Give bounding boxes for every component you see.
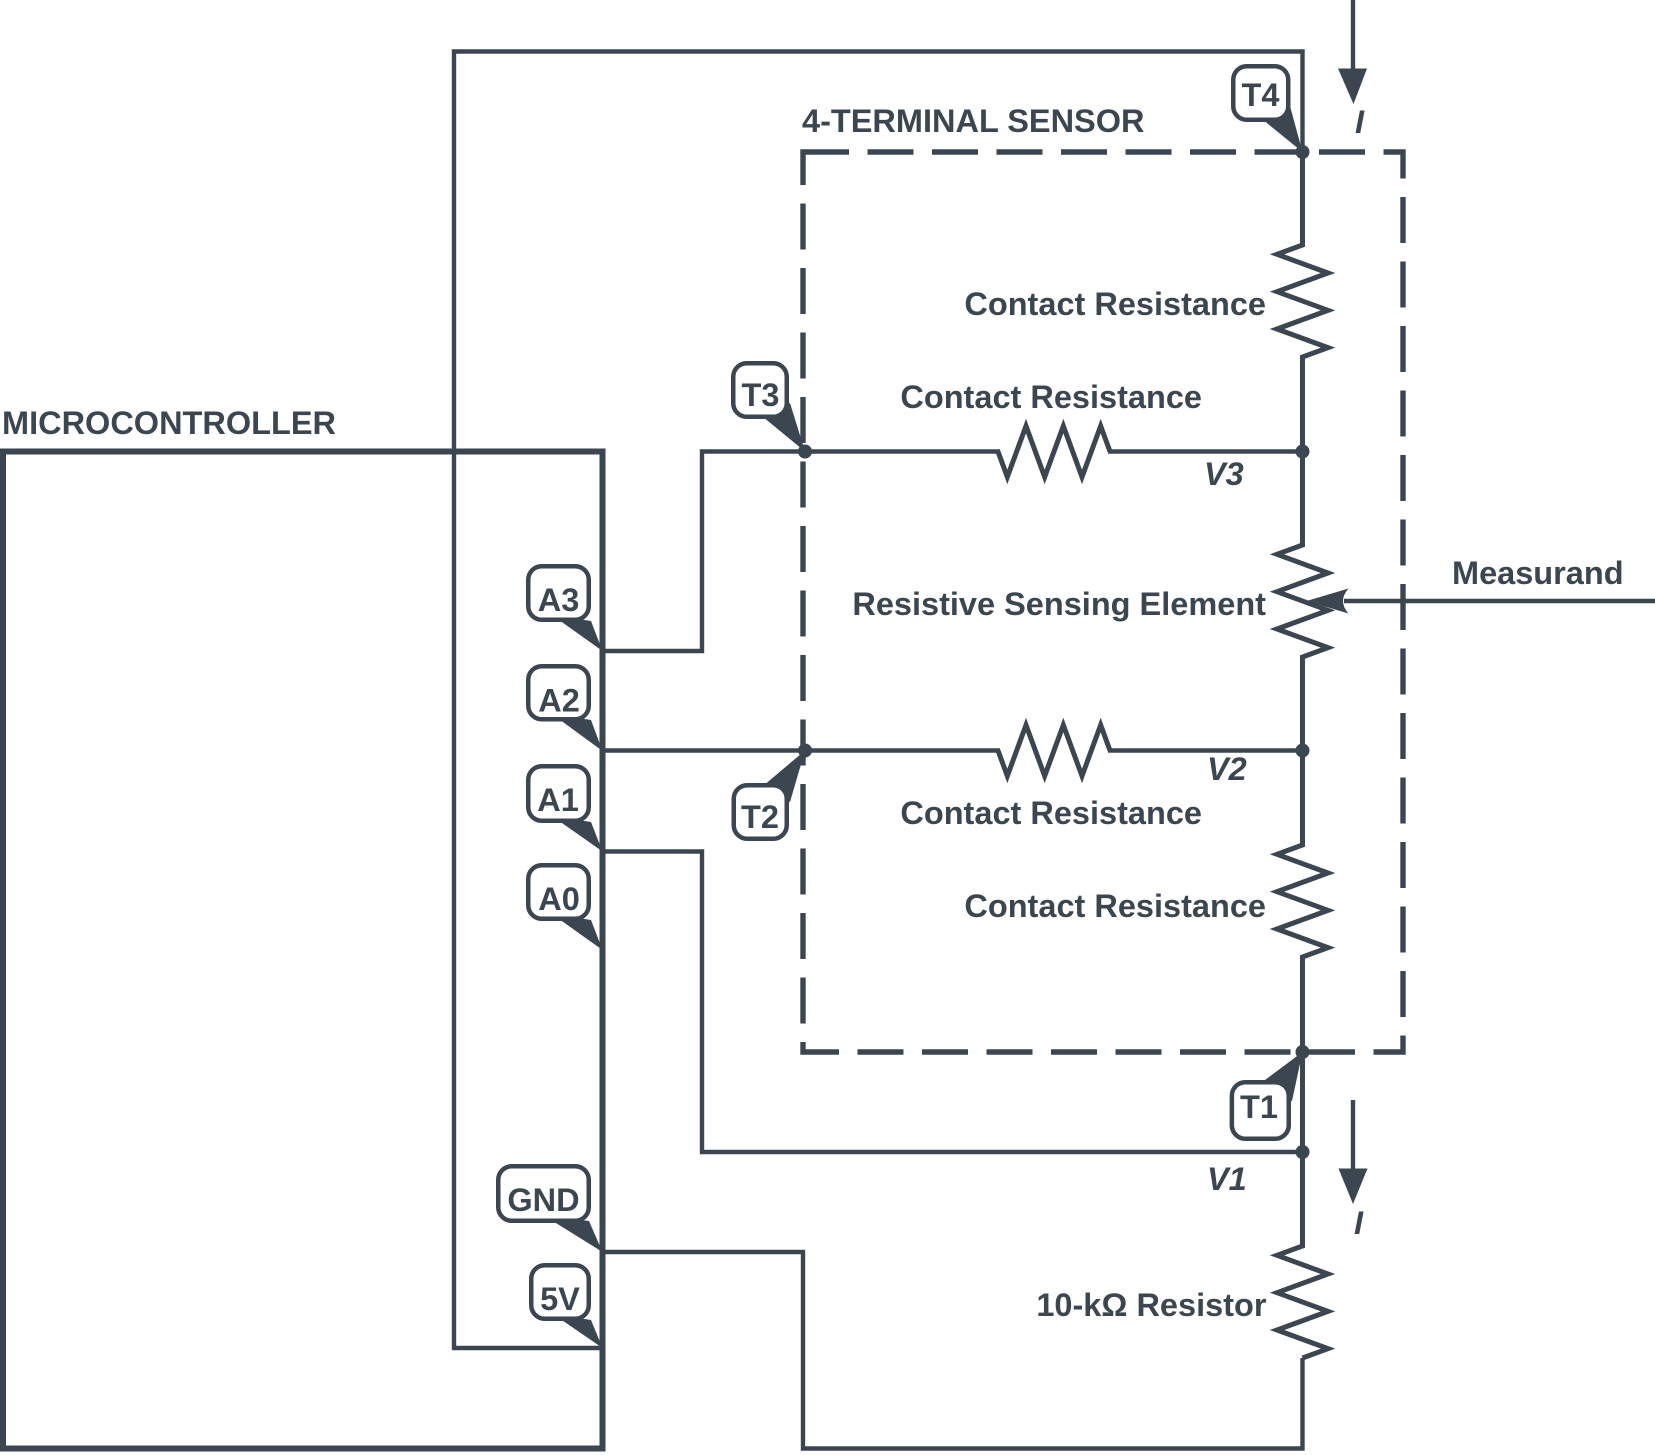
resistor 10-kOhm xyxy=(1277,1152,1328,1358)
svg-text:T3: T3 xyxy=(742,377,780,413)
junction dot V2 xyxy=(1296,744,1310,758)
wire R3 to node V2 xyxy=(1108,748,1303,752)
svg-text:A3: A3 xyxy=(538,582,580,618)
svg-text:A1: A1 xyxy=(537,782,579,818)
svg-text:V3: V3 xyxy=(1204,456,1244,492)
wire A3 to T3 xyxy=(603,452,1001,652)
callout box GND xyxy=(498,1166,589,1221)
current arrow bottom (wire) xyxy=(1351,1100,1355,1169)
svg-text:T1: T1 xyxy=(1240,1089,1278,1125)
svg-text:10-kΩ Resistor: 10-kΩ Resistor xyxy=(1036,1287,1267,1323)
dashed 4-terminal sensor box xyxy=(803,152,1403,1052)
measurand arrow line xyxy=(1344,599,1655,603)
svg-text:Resistive Sensing Element: Resistive Sensing Element xyxy=(852,586,1266,622)
wire 5V to T4 top loop xyxy=(454,52,1303,1349)
arrowhead bottom current xyxy=(1339,1169,1368,1205)
svg-text:I: I xyxy=(1354,1205,1364,1241)
svg-text:T2: T2 xyxy=(741,799,779,835)
callout tail A0 xyxy=(552,914,603,950)
callout box T2 xyxy=(734,785,787,839)
svg-text:T4: T4 xyxy=(1242,77,1280,113)
junction dot T3 xyxy=(798,445,812,459)
wire T1 to V1 xyxy=(1300,1052,1305,1152)
svg-text:4-TERMINAL SENSOR: 4-TERMINAL SENSOR xyxy=(802,103,1145,139)
callout tail T2 xyxy=(756,751,805,803)
callout box A0 xyxy=(528,865,589,919)
callout tail A2 xyxy=(552,714,603,751)
svg-text:A0: A0 xyxy=(538,881,580,917)
svg-text:Contact Resistance: Contact Resistance xyxy=(900,795,1202,831)
resistor contact resistance R1 (T4 branch, vertical) xyxy=(1277,152,1328,452)
callout box A1 xyxy=(528,766,589,821)
callout tail T1 xyxy=(1253,1052,1303,1101)
resistor resistive sensing element xyxy=(1277,452,1328,751)
callout box A2 xyxy=(528,666,589,719)
svg-text:V2: V2 xyxy=(1207,751,1247,787)
arrowhead top current xyxy=(1338,69,1367,105)
wire GND to resistor bottom xyxy=(603,1252,1303,1449)
microcontroller box xyxy=(3,452,603,1449)
junction dot V1 xyxy=(1296,1145,1310,1159)
svg-text:Contact Resistance: Contact Resistance xyxy=(900,379,1202,415)
svg-text:Contact Resistance: Contact Resistance xyxy=(964,286,1266,322)
current arrow top (wire) xyxy=(1351,0,1355,70)
svg-text:Measurand: Measurand xyxy=(1452,555,1624,591)
arrowhead measurand xyxy=(1307,589,1349,614)
wire A2 to T2 xyxy=(603,748,1001,752)
wire R2 to node V3 xyxy=(1108,449,1303,453)
callout tail A3 xyxy=(552,615,603,651)
callout tail 5V xyxy=(553,1314,603,1348)
callout box T3 xyxy=(733,363,787,417)
callout tail T4 xyxy=(1257,106,1303,152)
wire A1 to node V1 xyxy=(603,852,1303,1153)
junction dot V3 xyxy=(1296,445,1310,459)
junction dot T2 xyxy=(798,744,812,758)
contact resistance R3 (horizontal T2 branch) xyxy=(998,725,1110,776)
svg-text:I: I xyxy=(1355,104,1365,140)
callout tail A1 xyxy=(552,816,603,852)
junction dot T4 xyxy=(1296,145,1310,159)
svg-text:Contact Resistance: Contact Resistance xyxy=(964,888,1266,924)
callout box A3 xyxy=(528,566,589,620)
callout tail GND xyxy=(543,1215,603,1252)
callout box T4 xyxy=(1233,66,1288,120)
svg-text:MICROCONTROLLER: MICROCONTROLLER xyxy=(2,405,336,441)
svg-text:GND: GND xyxy=(507,1182,579,1218)
callout box 5V xyxy=(531,1265,589,1319)
callout box T1 xyxy=(1232,1082,1289,1139)
junction dot T1 xyxy=(1296,1045,1310,1059)
svg-text:A2: A2 xyxy=(538,683,580,719)
contact resistance R2 (horizontal T3 branch) xyxy=(998,426,1110,477)
callout tail T3 xyxy=(757,403,805,452)
svg-text:V1: V1 xyxy=(1207,1161,1247,1197)
resistor contact resistance R4 (T1 branch, vertical) xyxy=(1277,751,1328,1053)
svg-text:5V: 5V xyxy=(540,1281,580,1317)
